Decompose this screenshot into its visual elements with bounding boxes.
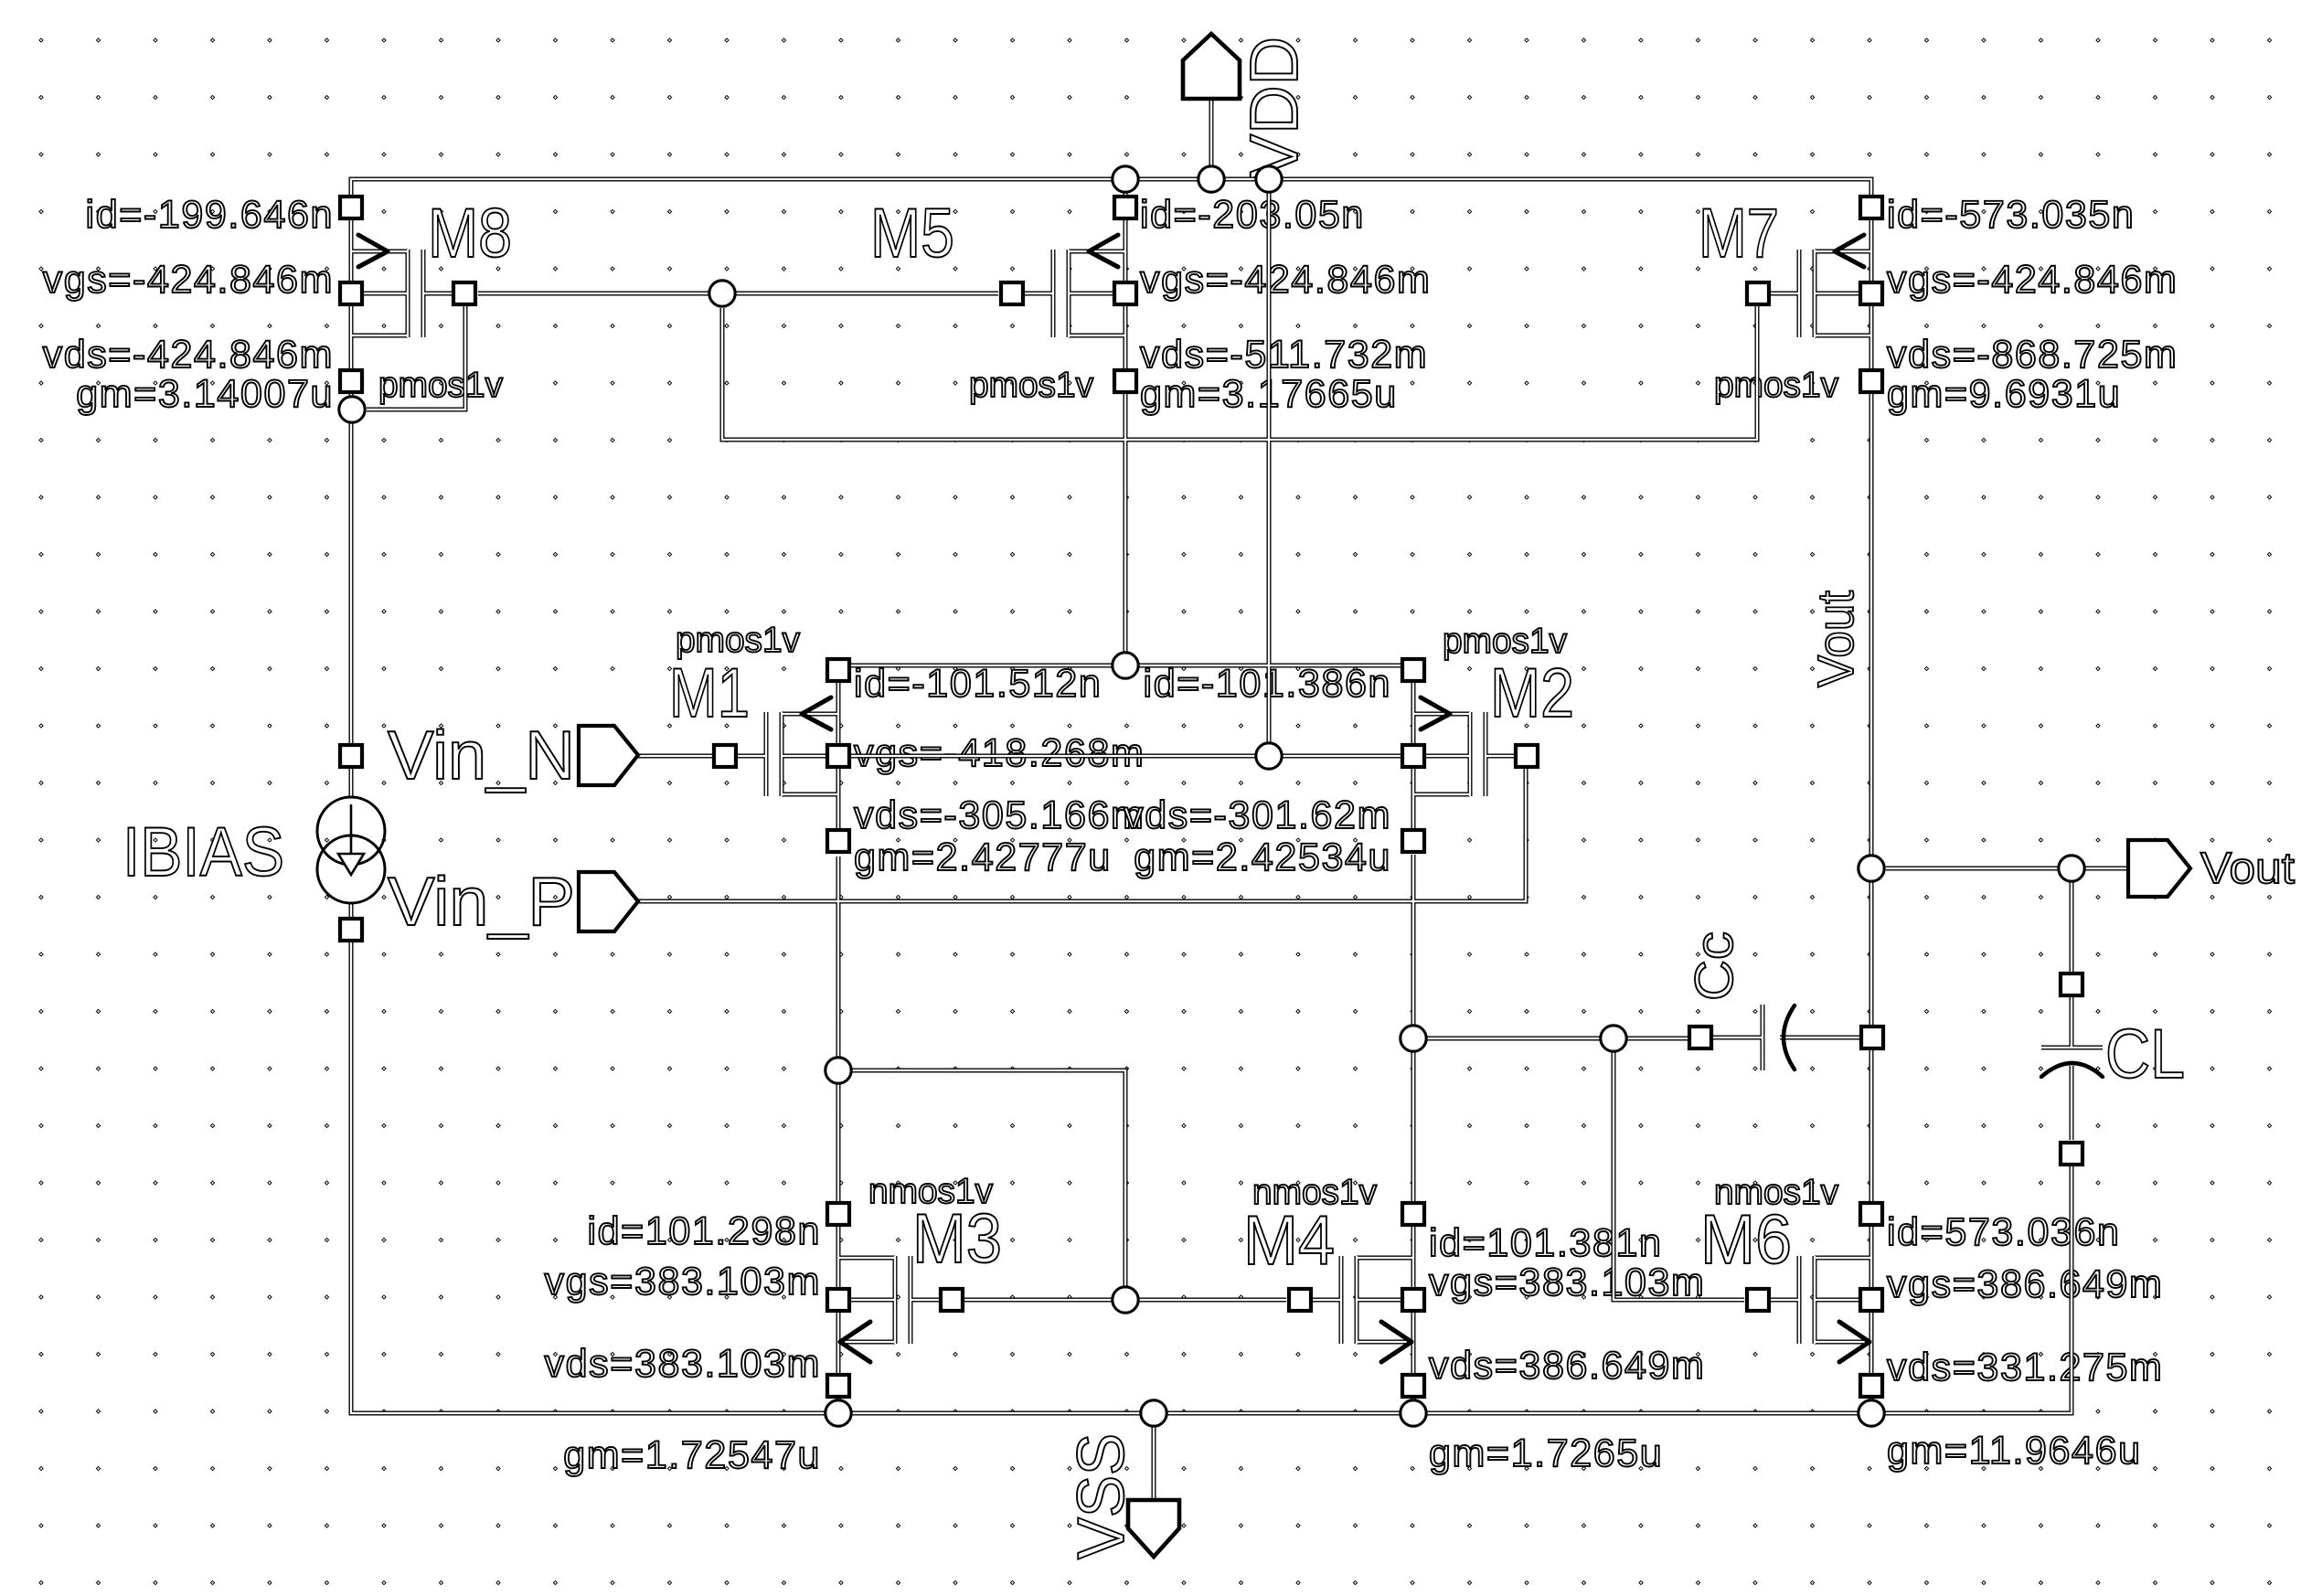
svg-text:id=101.298n: id=101.298n [587, 1209, 821, 1253]
svg-text:Vout: Vout [2200, 845, 2295, 893]
svg-text:gm=11.9646u: gm=11.9646u [1887, 1429, 2142, 1473]
svg-text:vds=-305.166m: vds=-305.166m [854, 793, 1145, 837]
svg-text:pmos1v: pmos1v [676, 621, 800, 660]
svg-text:id=-199.646n: id=-199.646n [86, 193, 334, 237]
svg-text:nmos1v: nmos1v [1714, 1173, 1838, 1212]
svg-text:vds=383.103m: vds=383.103m [545, 1342, 821, 1386]
svg-text:gm=2.42534u: gm=2.42534u [1134, 835, 1391, 879]
svg-text:M4: M4 [1243, 1202, 1335, 1280]
svg-text:vds=386.649m: vds=386.649m [1429, 1344, 1705, 1388]
svg-text:vgs=386.649m: vgs=386.649m [1887, 1262, 2163, 1306]
svg-text:M3: M3 [912, 1200, 1002, 1278]
svg-text:vds=-424.846m: vds=-424.846m [43, 333, 334, 377]
svg-text:gm=2.42777u: gm=2.42777u [854, 835, 1112, 879]
svg-text:gm=3.14007u: gm=3.14007u [76, 372, 334, 416]
svg-text:M7: M7 [1699, 195, 1779, 272]
svg-text:pmos1v: pmos1v [1443, 622, 1567, 661]
svg-text:M2: M2 [1490, 654, 1574, 732]
svg-text:vgs=-424.846m: vgs=-424.846m [1140, 258, 1431, 302]
svg-text:vds=-511.732m: vds=-511.732m [1140, 333, 1428, 377]
svg-text:Vout: Vout [1806, 591, 1864, 687]
svg-text:VSS: VSS [1065, 1433, 1138, 1559]
svg-text:vds=331.275m: vds=331.275m [1887, 1346, 2163, 1389]
svg-text:gm=9.6931u: gm=9.6931u [1887, 372, 2121, 416]
svg-text:vds=-868.725m: vds=-868.725m [1887, 333, 2178, 377]
svg-text:gm=1.72547u: gm=1.72547u [563, 1433, 821, 1477]
svg-text:nmos1v: nmos1v [1252, 1173, 1377, 1212]
svg-text:id=-101.512n: id=-101.512n [854, 662, 1102, 706]
svg-text:Vin_N: Vin_N [388, 717, 575, 793]
svg-text:id=573.036n: id=573.036n [1887, 1210, 2121, 1254]
svg-text:M5: M5 [870, 195, 954, 272]
svg-text:Cc: Cc [1685, 931, 1744, 1001]
svg-text:Vin_P: Vin_P [388, 863, 575, 940]
svg-text:VDD: VDD [1236, 37, 1312, 179]
svg-text:vds=-301.62m: vds=-301.62m [1124, 793, 1391, 837]
svg-text:pmos1v: pmos1v [1714, 366, 1838, 405]
svg-text:M8: M8 [428, 195, 512, 272]
svg-text:vgs=383.103m: vgs=383.103m [545, 1260, 821, 1303]
svg-text:vgs=-418.268m: vgs=-418.268m [854, 731, 1145, 775]
svg-text:id=-573.035n: id=-573.035n [1887, 193, 2135, 237]
svg-text:IBIAS: IBIAS [122, 814, 284, 891]
svg-text:vgs=-424.846m: vgs=-424.846m [43, 258, 334, 302]
svg-text:CL: CL [2105, 1016, 2185, 1093]
svg-text:M1: M1 [669, 654, 750, 732]
svg-text:id=-203.05n: id=-203.05n [1140, 193, 1365, 237]
svg-text:pmos1v: pmos1v [378, 366, 503, 405]
svg-text:pmos1v: pmos1v [969, 366, 1093, 405]
svg-text:gm=1.7265u: gm=1.7265u [1429, 1431, 1663, 1475]
svg-text:id=101.381n: id=101.381n [1429, 1221, 1663, 1265]
svg-text:M6: M6 [1700, 1201, 1792, 1279]
svg-text:nmos1v: nmos1v [868, 1172, 993, 1211]
svg-text:vgs=-424.846m: vgs=-424.846m [1887, 258, 2178, 302]
